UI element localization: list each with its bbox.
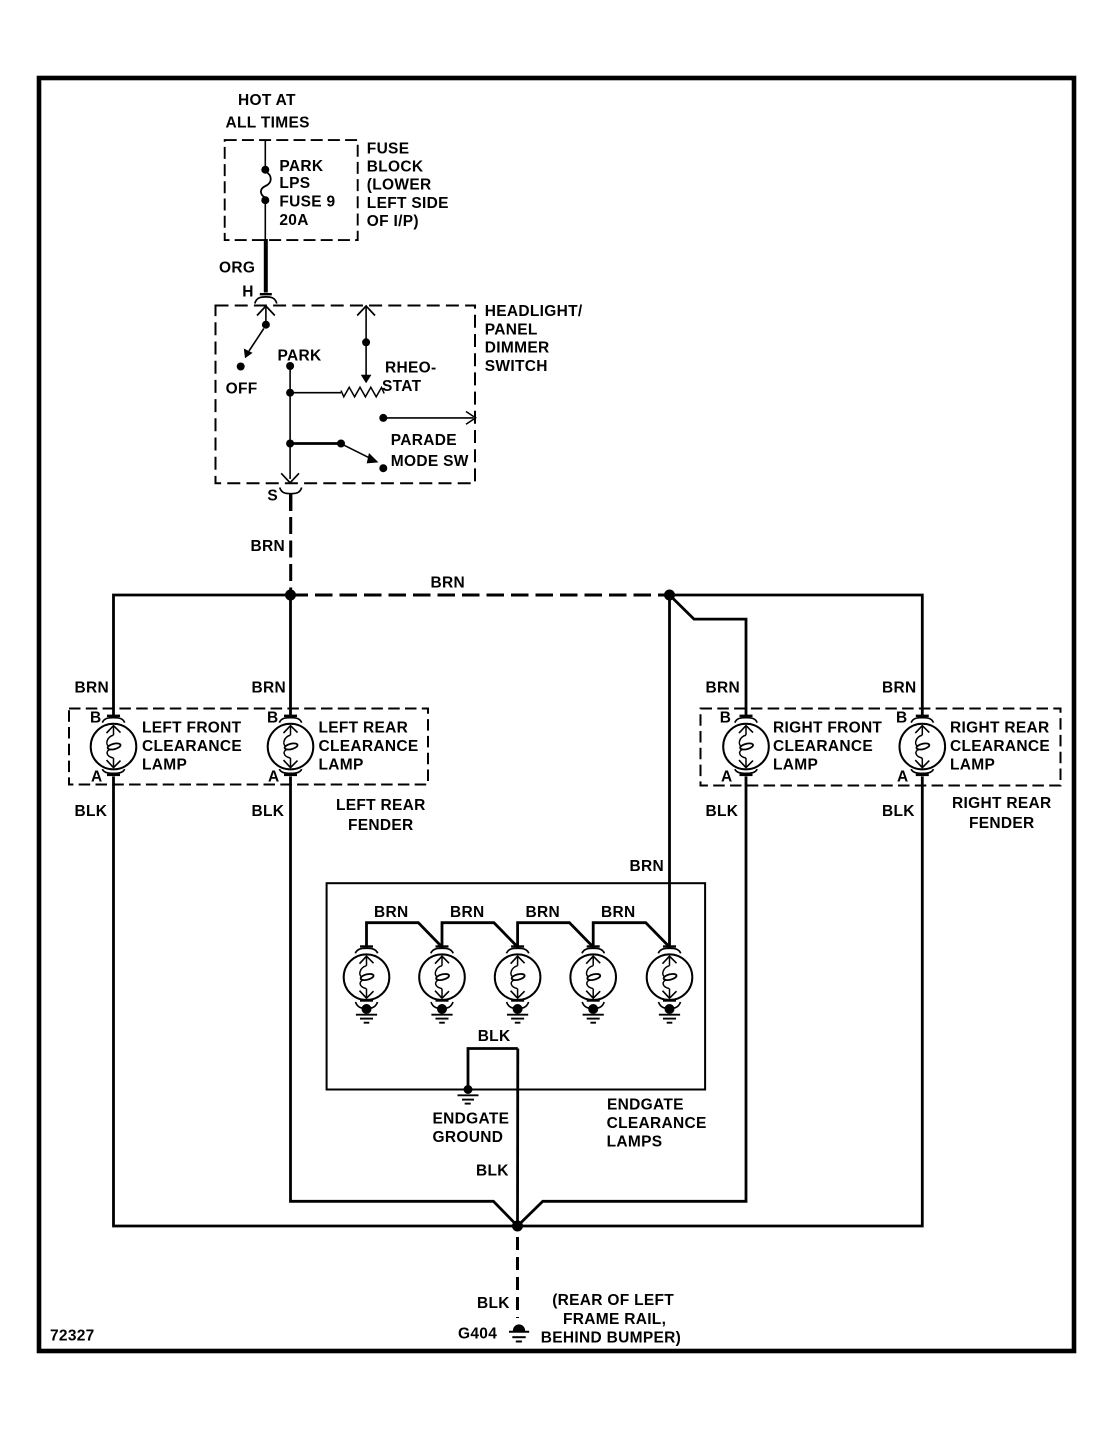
svg-text:BRN: BRN (450, 904, 484, 921)
svg-text:ENDGATE: ENDGATE (607, 1097, 684, 1114)
wire BLK right front lamp to ground junction (518, 776, 747, 1226)
svg-text:B: B (90, 709, 102, 726)
endgate clearance lamps box (327, 883, 705, 1089)
svg-text:BRN: BRN (252, 680, 286, 697)
svg-text:BLK: BLK (478, 1028, 511, 1045)
lamp right rear pin A cap (897, 769, 934, 786)
svg-text:BRN: BRN (630, 858, 664, 875)
wire to right rear lamp (right rail top) (670, 595, 923, 717)
svg-text:CLEARANCE: CLEARANCE (950, 738, 1050, 755)
svg-text:BRN: BRN (431, 575, 465, 592)
svg-text:B: B (896, 709, 908, 726)
svg-text:RIGHT REAR: RIGHT REAR (952, 795, 1051, 812)
svg-text:OFF: OFF (226, 381, 258, 398)
svg-text:LEFT FRONT: LEFT FRONT (142, 720, 242, 737)
switch name label (485, 303, 583, 375)
endgate lamp 3 ground (507, 1001, 529, 1023)
svg-text:(LOWER: (LOWER (367, 177, 432, 194)
wire lower contact (290, 442, 341, 445)
connector S (female cap) (267, 488, 301, 512)
endgate lamp 1 ground (356, 1001, 378, 1023)
lamp left rear clearance bulb (268, 724, 314, 770)
endgate lamp 5 ground (659, 1001, 681, 1023)
svg-text:LAMP: LAMP (773, 757, 818, 774)
endgate lamp 1 bulb (344, 954, 390, 1000)
svg-text:BLK: BLK (706, 803, 739, 820)
svg-text:ENDGATE: ENDGATE (433, 1111, 510, 1128)
wire into fuse (264, 140, 266, 169)
node RIGHT REAR FENDER label (952, 795, 1051, 832)
lamp left rear pin A cap (268, 769, 302, 786)
wire out of fuse (264, 200, 266, 240)
wire BLK left rear lamp to ground junction (291, 776, 518, 1226)
svg-text:STAT: STAT (382, 378, 422, 395)
svg-text:FENDER: FENDER (969, 815, 1035, 832)
svg-text:ORG: ORG (219, 259, 255, 276)
svg-text:BLK: BLK (75, 803, 108, 820)
svg-text:S: S (267, 488, 278, 505)
svg-text:PARK: PARK (279, 158, 323, 175)
svg-text:B: B (720, 709, 732, 726)
wire left rear lamp drop (289, 595, 292, 717)
svg-text:RIGHT REAR: RIGHT REAR (950, 720, 1049, 737)
svg-text:LEFT REAR: LEFT REAR (336, 797, 426, 814)
lamp left front pin A cap (91, 769, 125, 786)
svg-text:LPS: LPS (279, 175, 310, 192)
node OFF (226, 363, 258, 398)
svg-text:(REAR OF LEFT: (REAR OF LEFT (552, 1292, 674, 1309)
wire BRN dashed horizontal (291, 594, 670, 597)
svg-text:BRN: BRN (601, 904, 635, 921)
svg-text:BLOCK: BLOCK (367, 158, 424, 175)
endgate lamp 4 connector cap (582, 947, 604, 954)
wire BRN dashed from S (289, 517, 292, 595)
endgate lamp 3 connector cap (506, 947, 528, 954)
svg-text:BRN: BRN (75, 680, 109, 697)
endgate lamp 3 bulb (495, 954, 541, 1000)
svg-text:CLEARANCE: CLEARANCE (319, 738, 419, 755)
wire to left front lamp (left rail top) (114, 595, 291, 717)
ground endgate symbol (458, 1095, 479, 1103)
node contact pivot (337, 440, 345, 448)
wire BLK left rail (114, 776, 518, 1226)
wire jumper lamp1 to lamp2 (367, 923, 443, 947)
svg-text:BRN: BRN (706, 680, 740, 697)
svg-text:BRN: BRN (882, 680, 916, 697)
node ENDGATE GROUND label (433, 1111, 510, 1147)
endgate lamp 4 bulb (570, 954, 616, 1000)
svg-text:FENDER: FENDER (348, 817, 414, 834)
svg-text:PANEL: PANEL (485, 321, 538, 338)
wire BRN drop to endgate lamps (668, 595, 671, 947)
wire ORG (264, 239, 268, 293)
svg-text:GROUND: GROUND (433, 1129, 504, 1146)
lamp left front clearance bulb (91, 724, 137, 770)
left fender lamps box (69, 709, 428, 785)
svg-text:RIGHT FRONT: RIGHT FRONT (773, 720, 882, 737)
endgate lamp 5 bulb (647, 954, 693, 1000)
wire PARK to S (289, 366, 291, 479)
svg-text:A: A (721, 769, 733, 786)
parade mode label (391, 432, 469, 470)
svg-text:A: A (91, 769, 103, 786)
svg-text:BEHIND BUMPER): BEHIND BUMPER) (541, 1330, 681, 1347)
svg-text:A: A (268, 769, 280, 786)
svg-text:72327: 72327 (50, 1328, 95, 1345)
connector H (female cap) (242, 283, 276, 303)
svg-text:ALL TIMES: ALL TIMES (226, 115, 310, 132)
pin H arrow into switch (257, 306, 275, 329)
wire to right front lamp (670, 595, 747, 717)
fuse block box (225, 140, 358, 240)
svg-text:BRN: BRN (526, 904, 560, 921)
svg-text:BLK: BLK (476, 1162, 509, 1179)
svg-text:FUSE: FUSE (367, 141, 410, 158)
node G404 location label (541, 1292, 681, 1347)
lamp right front label (773, 720, 882, 774)
svg-text:RHEO-: RHEO- (385, 360, 436, 377)
svg-text:HEADLIGHT/: HEADLIGHT/ (485, 303, 583, 320)
svg-text:LAMP: LAMP (319, 757, 364, 774)
svg-text:FRAME RAIL,: FRAME RAIL, (563, 1311, 666, 1328)
pin S arrow out of switch (281, 473, 299, 483)
wire jumper lamp4 to lamp5 (593, 923, 669, 947)
wire jumper lamp3 to lamp4 (518, 923, 594, 947)
lamp left rear label (319, 720, 419, 774)
rheostat label (382, 360, 436, 395)
wire jumper lamp2 to lamp3 (442, 923, 518, 947)
lamp left front clearance: pin B cap (90, 709, 125, 726)
svg-text:HOT AT: HOT AT (238, 92, 296, 109)
junction on PARK wire (rheostat tap) (286, 389, 294, 397)
wiper to parade contact (344, 445, 378, 463)
svg-text:PARK: PARK (278, 348, 322, 365)
node LEFT REAR FENDER label (336, 797, 426, 834)
svg-text:BLK: BLK (882, 803, 915, 820)
lamp right rear clearance bulb (900, 724, 946, 770)
lamp left rear clearance: pin B cap (267, 709, 302, 726)
ground G404 (509, 1325, 529, 1342)
svg-text:LAMP: LAMP (950, 757, 995, 774)
fuse value label (279, 158, 335, 229)
svg-text:BLK: BLK (252, 803, 285, 820)
lamp right front clearance: pin B cap (720, 709, 758, 726)
node parade contact (379, 464, 387, 472)
node endgate ground dot (464, 1085, 473, 1094)
svg-text:B: B (267, 709, 279, 726)
wire BLK endgate ground jog (468, 1049, 518, 1088)
fuse block name label (367, 141, 449, 230)
headlight/panel dimmer switch box (216, 306, 476, 484)
wire tap to rheostat (290, 392, 341, 394)
svg-text:LAMP: LAMP (142, 757, 187, 774)
node PARK (278, 348, 322, 370)
wire BLK endgate down to junction (516, 1049, 519, 1227)
lamp left front label (142, 720, 242, 774)
svg-text:CLEARANCE: CLEARANCE (142, 738, 242, 755)
svg-text:DIMMER: DIMMER (485, 340, 550, 357)
svg-text:BLK: BLK (477, 1295, 510, 1312)
svg-text:SWITCH: SWITCH (485, 358, 548, 375)
endgate lamp 4 ground (582, 1001, 604, 1023)
endgate lamp 5 connector cap (658, 947, 680, 954)
rheostat wiper double arrow (357, 306, 375, 383)
lamp right front pin A cap (721, 769, 757, 786)
svg-text:MODE SW: MODE SW (391, 453, 469, 470)
svg-text:20A: 20A (279, 212, 308, 229)
rheostat zigzag (341, 387, 384, 397)
lamp right rear clearance: pin B cap (896, 709, 934, 726)
lamp right rear label (950, 720, 1050, 774)
endgate lamp 2 bulb (419, 954, 465, 1000)
node junction right BRN (664, 590, 675, 601)
fuse PARK LPS FUSE 9 20A (261, 166, 271, 205)
svg-text:CLEARANCE: CLEARANCE (607, 1115, 707, 1132)
endgate lamp 2 connector cap (431, 947, 453, 954)
wire BLK dashed to G404 (516, 1226, 519, 1318)
node junction left BRN (285, 590, 296, 601)
svg-text:G404: G404 (458, 1326, 497, 1343)
lamp right front clearance bulb (723, 724, 769, 770)
node ground junction G404 feed (512, 1221, 523, 1232)
svg-text:PARADE: PARADE (391, 432, 457, 449)
wire BLK right rail (518, 776, 923, 1226)
node HOT AT ALL TIMES label (226, 92, 310, 132)
node ENDGATE CLEARANCE LAMPS label (607, 1097, 707, 1151)
endgate lamp 2 ground (431, 1001, 453, 1023)
svg-text:BRN: BRN (251, 538, 285, 555)
svg-text:LEFT SIDE: LEFT SIDE (367, 195, 449, 212)
junction lower contact (286, 440, 294, 448)
svg-text:H: H (242, 283, 254, 300)
switch wiper to OFF (244, 329, 263, 358)
svg-text:OF I/P): OF I/P) (367, 213, 419, 230)
right fender lamps box (701, 709, 1061, 786)
svg-text:LAMPS: LAMPS (607, 1134, 663, 1151)
parade mode switch contact (379, 412, 475, 425)
svg-text:CLEARANCE: CLEARANCE (773, 738, 873, 755)
svg-text:A: A (897, 769, 909, 786)
svg-text:BRN: BRN (374, 904, 408, 921)
endgate lamp 1 connector cap (355, 947, 377, 954)
svg-text:LEFT REAR: LEFT REAR (319, 720, 409, 737)
svg-text:FUSE 9: FUSE 9 (279, 194, 335, 211)
